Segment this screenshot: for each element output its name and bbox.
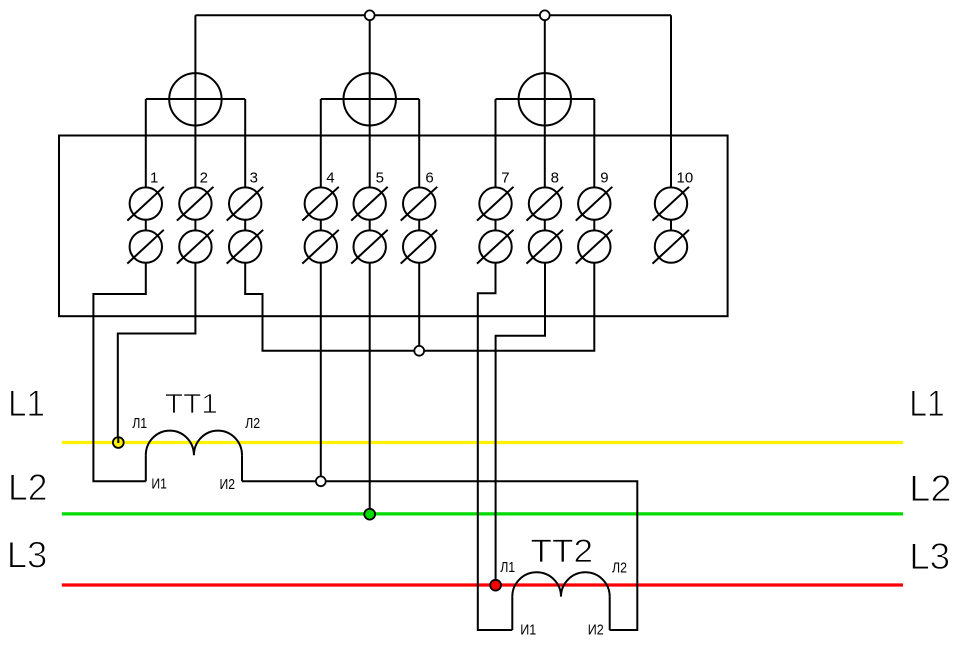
transformer TT1 secondary lead I2 bbox=[241, 455, 243, 481]
node junction terminal 6 with link wire bbox=[414, 346, 424, 356]
terminal 7 slashes bbox=[477, 187, 514, 221]
node tap on L1 (yellow dot) bbox=[113, 437, 124, 448]
terminal 9 slashes bbox=[576, 187, 613, 221]
terminal 6 screws bbox=[403, 187, 435, 219]
terminal 10 slashes bbox=[653, 187, 690, 221]
wire terminal 7 feed bbox=[495, 99, 497, 264]
wire top bus bbox=[195, 14, 671, 16]
svg-text:L1: L1 bbox=[909, 383, 945, 424]
wire coil2 center drop bbox=[369, 15, 371, 263]
node tap on L2 (green dot) bbox=[364, 509, 375, 520]
svg-text:2: 2 bbox=[200, 170, 208, 187]
terminal 5 slashes bbox=[351, 187, 388, 221]
transformer TT1 winding humps bbox=[146, 431, 242, 456]
transformer TT1 secondary lead I1 bbox=[145, 455, 147, 481]
wire terminal 10 feed bbox=[670, 15, 672, 263]
wire coil3 horizontal bbox=[496, 98, 595, 100]
transformer TT2 winding humps bbox=[512, 572, 609, 596]
wire terminal 1 feed bbox=[145, 99, 147, 264]
node junction on top bus at coil W2 bbox=[365, 10, 375, 20]
svg-text:8: 8 bbox=[551, 170, 559, 187]
wire terminal 6 feed bbox=[418, 99, 420, 264]
terminal 7 screws bbox=[479, 187, 511, 219]
terminal 4 screws bbox=[305, 187, 337, 219]
wire terminal 2 to L1 tap bbox=[118, 264, 196, 443]
svg-text:1: 1 bbox=[150, 170, 158, 187]
line L3 (red phase wire) bbox=[62, 583, 903, 586]
terminal 8 slashes bbox=[527, 187, 564, 221]
svg-text:4: 4 bbox=[326, 170, 334, 187]
wire terminal 5 to L2 tap bbox=[369, 264, 371, 515]
wire terminal 4 drop to junction bbox=[320, 264, 322, 482]
node junction on top bus at coil W3 bbox=[540, 10, 550, 20]
terminal 9 screws bbox=[578, 187, 610, 219]
svg-text:L3: L3 bbox=[909, 536, 950, 577]
svg-text:ТТ1: ТТ1 bbox=[165, 388, 218, 419]
transformer TT2 secondary lead I1 bbox=[511, 597, 513, 630]
terminal 2 slashes bbox=[177, 187, 214, 221]
wire terminal 6 drop to junction bbox=[418, 264, 420, 351]
wire terminal 9 feed bbox=[593, 99, 595, 264]
terminal 2 screws bbox=[179, 187, 211, 219]
svg-text:10: 10 bbox=[677, 170, 694, 187]
svg-text:И1: И1 bbox=[151, 476, 167, 493]
wire coil1 center drop bbox=[194, 15, 196, 263]
wire I2 of TT1 to I2 of TT2 bbox=[242, 481, 637, 630]
svg-text:3: 3 bbox=[250, 170, 258, 187]
terminal 3 screws bbox=[229, 187, 261, 219]
terminal 1 slashes bbox=[127, 187, 164, 221]
node tap on L3 (red dot) bbox=[490, 580, 501, 591]
svg-text:L2: L2 bbox=[909, 468, 952, 509]
terminal 1 screws bbox=[130, 187, 162, 219]
svg-text:7: 7 bbox=[501, 170, 509, 187]
wire terminal 7 to I1 of TT2 bbox=[478, 264, 513, 631]
wire terminal 8 to L3 tap bbox=[496, 264, 545, 586]
terminal 3 slashes bbox=[227, 187, 264, 221]
svg-text:L1: L1 bbox=[8, 383, 45, 424]
svg-text:L3: L3 bbox=[7, 535, 48, 576]
terminal 6 slashes bbox=[401, 187, 438, 221]
voltage coil W3 bbox=[519, 73, 571, 125]
terminal 10 screws bbox=[655, 187, 687, 219]
svg-text:И2: И2 bbox=[220, 476, 236, 493]
wire terminal 1 to I1 of TT1 bbox=[93, 264, 145, 482]
transformer TT2 secondary lead I2 bbox=[609, 597, 611, 630]
terminal 8 screws bbox=[529, 187, 561, 219]
svg-text:5: 5 bbox=[376, 170, 384, 187]
svg-text:Л2: Л2 bbox=[245, 415, 260, 432]
voltage coil W1 bbox=[169, 73, 221, 125]
svg-text:Л2: Л2 bbox=[612, 560, 627, 577]
wire coil2 horizontal bbox=[321, 98, 419, 100]
node junction terminal 4 with I2 wire bbox=[316, 476, 326, 486]
svg-text:Л1: Л1 bbox=[132, 415, 147, 432]
svg-text:L2: L2 bbox=[8, 467, 48, 508]
svg-text:И1: И1 bbox=[520, 622, 536, 639]
svg-text:6: 6 bbox=[425, 170, 433, 187]
wire terminal 3 to terminal 9 link bbox=[245, 264, 594, 351]
wire coil1 horizontal bbox=[146, 98, 245, 100]
line L2 (green phase wire) bbox=[62, 512, 903, 515]
svg-text:9: 9 bbox=[600, 170, 608, 187]
terminal 5 screws bbox=[354, 187, 386, 219]
svg-text:И2: И2 bbox=[588, 622, 604, 639]
wire coil3 center drop bbox=[544, 15, 546, 263]
line L1 (yellow phase wire) bbox=[62, 441, 903, 444]
svg-text:Л1: Л1 bbox=[500, 559, 515, 576]
terminal 4 slashes bbox=[302, 187, 339, 221]
terminal box outline bbox=[59, 136, 728, 317]
wire terminal 3 feed bbox=[244, 99, 246, 264]
svg-text:ТТ2: ТТ2 bbox=[531, 533, 594, 569]
wire terminal 4 feed bbox=[320, 99, 322, 264]
voltage coil W2 bbox=[344, 73, 396, 125]
